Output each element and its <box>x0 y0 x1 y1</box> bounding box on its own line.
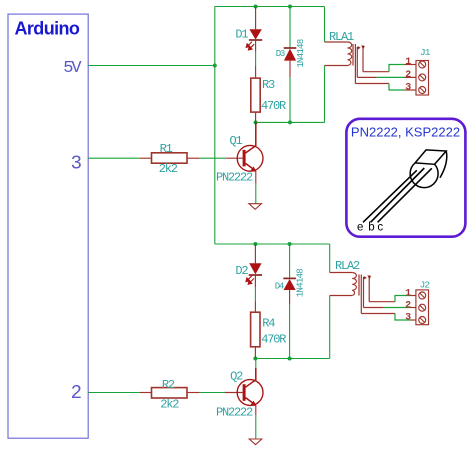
junction bottom rail 2 R4 <box>253 357 257 361</box>
wire base Q2 (pin 2) <box>88 392 140 394</box>
LED D1 emission arrows <box>246 42 254 50</box>
relay RLA1 core <box>353 44 355 84</box>
svg-text:470R: 470R <box>261 333 286 347</box>
svg-text:470R: 470R <box>261 99 286 113</box>
svg-text:D2: D2 <box>235 264 248 278</box>
svg-text:1N4148: 1N4148 <box>295 269 306 298</box>
wire bottom rail circuit 2 <box>255 358 329 360</box>
LED D1 <box>249 7 262 52</box>
resistor R3 <box>251 66 260 122</box>
junction bottom rail D3 <box>288 120 292 124</box>
resistor R2 <box>140 388 199 398</box>
wire top rail circuit 1 <box>215 6 325 8</box>
ground Q1 <box>249 204 262 210</box>
wire bottom rail circuit 1 <box>256 121 325 123</box>
svg-text:1: 1 <box>405 289 411 300</box>
ground Q2 <box>249 439 262 445</box>
svg-text:RLA2: RLA2 <box>335 259 360 273</box>
wire base Q1 (pin 3) <box>88 157 140 159</box>
svg-text:2k2: 2k2 <box>159 162 178 176</box>
junction top rail 2 D4 <box>288 242 292 246</box>
TO-92 package body <box>410 150 447 188</box>
wire top rail circuit 2 <box>215 243 330 245</box>
svg-text:2: 2 <box>405 301 411 312</box>
svg-text:D1: D1 <box>235 28 248 42</box>
svg-text:3: 3 <box>405 313 411 324</box>
wire relay 2 contact row 2 to J2 pin 2 <box>364 307 416 309</box>
resistor R4 <box>251 302 260 359</box>
junction top rail D3 <box>288 5 292 9</box>
wire R1 to Q1 base <box>199 157 226 159</box>
connector J2 <box>416 290 429 325</box>
junction bottom rail 2 D4 <box>288 357 292 361</box>
svg-text:PN2222: PN2222 <box>216 406 253 420</box>
wire collector Q2 <box>255 359 257 369</box>
transistor Q2 <box>225 368 263 415</box>
svg-text:D4: D4 <box>275 282 284 292</box>
wire emitter Q2 to ground <box>255 415 257 439</box>
svg-text:3: 3 <box>71 152 82 174</box>
relay RLA2 moving contact arrow <box>367 275 371 301</box>
svg-text:R4: R4 <box>262 317 275 331</box>
svg-text:Arduino: Arduino <box>15 19 80 39</box>
svg-text:e: e <box>357 222 363 234</box>
relay RLA2 core <box>359 275 361 314</box>
svg-text:2: 2 <box>71 382 82 404</box>
svg-text:2k2: 2k2 <box>160 397 179 411</box>
diode D4 1N4148 <box>283 244 296 359</box>
wire relay contact row 2 to J1 pin 2 <box>357 76 416 78</box>
junction top rail 2 D2 <box>253 242 257 246</box>
LED D2 emission arrows <box>246 276 254 284</box>
transistor Q1 <box>226 122 263 183</box>
junction 5V bus <box>213 64 217 68</box>
svg-text:Q1: Q1 <box>229 134 242 148</box>
svg-text:1N4148: 1N4148 <box>295 39 306 68</box>
wire relay 2 contact row 1 to J2 pin 1 <box>369 296 416 302</box>
svg-text:c: c <box>377 222 383 234</box>
Arduino module box <box>8 14 88 438</box>
label e b c <box>357 222 383 234</box>
relay RLA2 coil <box>330 273 357 296</box>
wire relay contact row 3 to J1 pin 3 <box>355 84 416 91</box>
wire right side upper circuit 2 <box>329 244 331 273</box>
wire right side upper circuit 1 <box>324 7 326 43</box>
connector J1 <box>416 61 429 96</box>
svg-text:1: 1 <box>405 57 411 68</box>
relay RLA2 contact common with arrow <box>364 276 367 308</box>
LED D2 <box>249 244 262 287</box>
svg-text:R3: R3 <box>262 78 275 92</box>
wire emitter Q1 to ground <box>255 184 257 204</box>
svg-text:J1: J1 <box>420 47 431 58</box>
wire D1 to R3 <box>255 52 257 67</box>
relay RLA1 moving contact arrow <box>361 45 365 71</box>
resistor R1 <box>140 153 199 163</box>
svg-text:RLA1: RLA1 <box>329 30 354 44</box>
wire 5V from Arduino to bus <box>88 65 215 67</box>
svg-text:R1: R1 <box>160 142 173 156</box>
svg-text:R2: R2 <box>162 378 175 392</box>
transistor info badge <box>346 119 465 237</box>
svg-text:D3: D3 <box>276 49 285 59</box>
wire relay 2 contact row 3 to J2 pin 3 <box>361 314 416 321</box>
wire R2 to Q2 base <box>199 392 225 394</box>
junction bottom rail R3 <box>254 120 258 124</box>
svg-text:2: 2 <box>405 70 411 81</box>
diode D3 1N4148 <box>284 7 297 123</box>
relay RLA1 contact common with arrow <box>357 46 360 77</box>
wire 5V vertical bus <box>214 7 216 245</box>
svg-text:b: b <box>368 222 374 234</box>
svg-text:3: 3 <box>405 82 411 93</box>
junction top rail D1 <box>254 5 258 9</box>
svg-text:PN2222, KSP2222: PN2222, KSP2222 <box>351 125 460 140</box>
svg-text:Q2: Q2 <box>230 370 243 384</box>
wire right side lower circuit 1 <box>324 66 326 123</box>
svg-text:PN2222: PN2222 <box>216 170 253 184</box>
wire right side lower circuit 2 <box>329 296 331 359</box>
wire relay contact row 1 to J1 pin 1 <box>363 65 416 72</box>
svg-text:J2: J2 <box>420 280 431 291</box>
relay RLA1 coil <box>325 42 352 66</box>
TO-92 leads <box>363 168 432 222</box>
wire D2 to R4 <box>254 287 256 302</box>
